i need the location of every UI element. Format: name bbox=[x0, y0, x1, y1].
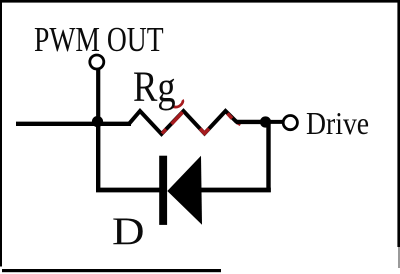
junction node left bbox=[92, 116, 103, 127]
wire: node to Drive terminal bbox=[266, 120, 283, 124]
diode D triangle anode bbox=[167, 156, 202, 225]
resistor Rg red segment on upslope to peak 2 bbox=[172, 112, 183, 124]
resistor Rg zigzag bbox=[129, 111, 237, 134]
resistor Rg red segment on downslope from peak 3 bbox=[228, 113, 233, 118]
resistor Rg red segment at valley 2 bbox=[200, 129, 209, 134]
diode D cathode bar bbox=[159, 156, 167, 225]
junction node right bbox=[260, 116, 271, 127]
terminal Drive open circle bbox=[283, 116, 297, 130]
label PWM OUT bbox=[34, 22, 164, 57]
wire: main input from left edge bbox=[16, 122, 131, 126]
wire: left vertical drop to diode loop bbox=[96, 124, 100, 191]
label D bbox=[112, 213, 145, 252]
terminal PWM OUT open circle bbox=[90, 55, 104, 69]
wire: resistor to right node bbox=[236, 120, 264, 124]
wire: bottom right segment bbox=[200, 188, 271, 193]
resistor Rg red segment at right end bbox=[237, 123, 241, 125]
wire: PWM terminal down to node bbox=[96, 70, 100, 123]
resistor Rg red segment at valley 1 bbox=[162, 129, 166, 133]
wire: bottom left segment bbox=[96, 188, 160, 193]
wire: right vertical drop from node to loop bbox=[266, 124, 270, 192]
label Drive bbox=[306, 108, 369, 140]
red arc over g descender of Rg label bbox=[172, 100, 183, 107]
label Rg bbox=[133, 66, 176, 109]
